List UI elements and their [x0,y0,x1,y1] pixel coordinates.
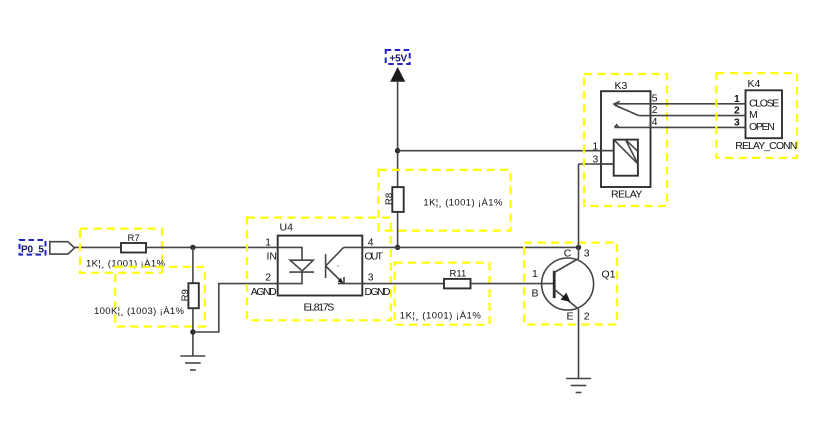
LED inside U4 [278,247,314,283]
relay pin number 1 [593,141,599,152]
svg-text:5: 5 [652,93,658,104]
highlight box R9 [115,267,205,327]
pin 4 label [368,238,374,249]
svg-text:1: 1 [734,94,740,105]
wire AGND return path [193,284,278,332]
svg-text:CLOSE: CLOSE [749,97,779,109]
relay contact pin4 [615,125,651,128]
relay contact pin2 [639,115,651,117]
svg-text:K3: K3 [615,80,628,92]
relay pin number 4 [652,117,658,128]
value label R8 1K (1001) ±1% [423,197,503,208]
pin name IN [267,250,278,262]
svg-text:C: C [564,247,572,259]
wire port to R7 [75,246,122,248]
highlight box R11 [395,263,490,325]
K4 pin number 3 [734,118,740,129]
svg-text:OUT: OUT [365,250,384,262]
wire relay pin4 to K4 pin3 [651,126,746,128]
svg-text:EL817S: EL817S [304,301,335,313]
value label R9 100K (1003) ±1% [94,306,185,317]
wire R7 to U4 pin1 [146,246,278,248]
relay name RELAY [611,188,642,200]
value label R11 1K (1001) ±1% [400,310,482,321]
junction R8/OUT [395,245,400,250]
net label P0_5 [20,240,46,256]
ground GND2 [566,379,591,393]
svg-text:M: M [749,109,758,121]
junction AGND return [190,329,195,334]
wire R8 to OUT row [397,212,399,248]
svg-text:100K¦¸ (1003) ¡À1%: 100K¦¸ (1003) ¡À1% [94,306,185,317]
svg-text:P0_5: P0_5 [21,245,44,256]
relay coil [614,140,638,176]
highlight box R8 [379,170,511,231]
relay pin1 stub [601,150,614,152]
svg-text:R11: R11 [450,269,467,280]
wire R9 to ground [192,308,194,356]
K4 pin name CLOSE [749,97,779,109]
value label R7 1K (1001) ±1% [86,258,166,269]
wire R11 to base [471,283,554,285]
svg-text:RELAY: RELAY [611,188,642,200]
svg-text:1: 1 [593,141,599,152]
svg-text:AGND: AGND [251,286,277,298]
relay pin number 5 [652,93,658,104]
svg-text:3: 3 [734,118,740,129]
svg-text:Q1: Q1 [602,269,616,281]
junction +5V / relay feed [395,148,400,153]
svg-text:2: 2 [265,273,271,284]
K4 pin number 1 [734,94,740,105]
wire relay pin5 to K4 pin1 [651,103,746,105]
resistor R11 [444,269,471,289]
pin 2 label [265,273,271,284]
wire collector to relay pin3 [578,164,580,259]
svg-text:2: 2 [584,310,590,322]
relay pin number 2 [652,105,658,116]
phototransistor inside U4 [326,247,363,283]
svg-text:B: B [532,287,539,299]
junction OUT/collector [576,245,581,250]
highlight box U4 [247,218,391,321]
wire +5V to relay pin1 [398,150,614,152]
svg-text:4: 4 [652,117,658,128]
wire emitter to ground [578,309,580,379]
pin label 1 B [532,268,539,299]
svg-text:K4: K4 [748,78,761,90]
highlight box R7 [80,229,162,273]
relay contact pin5 [614,101,651,107]
svg-text:IN: IN [267,250,278,262]
svg-text:2: 2 [734,106,740,117]
pin name AGND [251,286,277,298]
ground GND1 [180,356,205,370]
K4 pin name OPEN [749,121,775,133]
port symbol P0_5 [50,242,75,254]
highlight box Q1 [524,243,617,325]
wire junction to R9 [192,247,194,283]
svg-text:1K¦¸ (1001) ¡À1%: 1K¦¸ (1001) ¡À1% [86,258,166,269]
resistor R9 [180,283,199,308]
pin label E 2 [567,310,590,322]
svg-text:DGND: DGND [365,286,391,298]
wire OUT row to collector [362,246,578,248]
junction R7/R9 [190,245,195,250]
svg-text:3: 3 [368,273,374,284]
wire relay pin2 to K4 pin2 [651,115,746,117]
svg-text:1K¦¸ (1001) ¡À1%: 1K¦¸ (1001) ¡À1% [400,310,482,321]
pin 1 label [265,238,271,249]
wire relay pin3 horizontal [579,163,614,165]
connector K4 body [746,78,783,138]
connector name RELAY_CONN [735,140,797,152]
resistor R7 [121,233,146,252]
relay K3 body [601,80,651,187]
relay pin3 stub [601,163,614,165]
K4 pin name M [749,109,758,121]
svg-text:1: 1 [265,238,271,249]
K4 pin number 2 [734,106,740,117]
svg-text:2: 2 [652,105,658,116]
svg-text:R9: R9 [180,289,191,301]
pin 3 label [368,273,374,284]
svg-text:OPEN: OPEN [749,121,775,133]
svg-text:RELAY_CONN: RELAY_CONN [735,140,797,152]
part number EL817S [304,301,335,313]
transistor Q1 [542,258,616,310]
svg-text:3: 3 [584,247,590,259]
wire DGND to R11 [362,283,444,285]
op-to-coupler U4 body [278,221,363,295]
pin name OUT [365,250,384,262]
resistor R8 [384,187,404,212]
svg-text:U4: U4 [280,221,294,233]
svg-text:R8: R8 [384,193,395,205]
relay switch blade [615,105,639,116]
wire +5V down to R8 [397,82,399,187]
svg-text:3: 3 [593,155,599,166]
svg-text:+5V: +5V [390,53,408,64]
highlight box K3 [584,74,667,206]
svg-text:R7: R7 [128,233,140,244]
svg-text:1K¦¸ (1001) ¡À1%: 1K¦¸ (1001) ¡À1% [423,197,503,208]
power +5V [386,50,410,82]
pin label C 3 [564,247,590,259]
svg-text:E: E [567,310,574,322]
svg-text:1: 1 [532,268,538,280]
relay pin number 3 [593,155,599,166]
highlight box K4 [716,73,797,158]
pin name DGND [365,286,391,298]
